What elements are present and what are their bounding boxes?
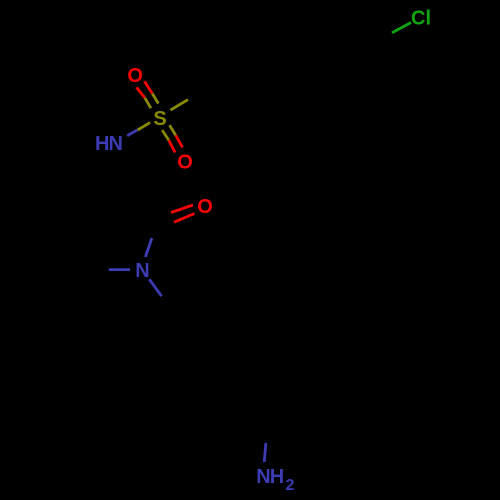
svg-text:O: O	[127, 65, 143, 87]
svg-text:NH: NH	[256, 466, 283, 488]
svg-text:N: N	[135, 260, 149, 282]
bond N1-C5 (half near N1)	[109, 268, 130, 271]
svg-text:S: S	[153, 108, 166, 130]
bond N1-C2 (half near N1)	[145, 238, 152, 257]
bond C2=O carbonyl, line 2 (half near O)	[174, 214, 195, 223]
bond N-S	[127, 123, 150, 136]
bond S=O bottom, line 2	[170, 125, 183, 147]
bond S=O top, line 1	[137, 87, 151, 108]
bond C-Cl (half near Cl)	[392, 23, 411, 33]
svg-text:2: 2	[286, 477, 295, 494]
svg-text:Cl: Cl	[411, 8, 431, 30]
bond S=O bottom, line 1	[162, 130, 175, 152]
bond S=O top, line 2	[144, 81, 158, 103]
bond S-CH2 (half near S)	[171, 100, 189, 111]
svg-text:O: O	[197, 196, 213, 218]
bond C2=O carbonyl, line 1 (half near O)	[171, 205, 193, 213]
bond N1-CH2 benzyl (half near N1)	[149, 279, 161, 296]
svg-text:O: O	[177, 151, 193, 173]
atom label NH2 (aniline)	[256, 466, 294, 494]
bond C-NH2 (half near NH2)	[264, 443, 266, 462]
svg-text:HN: HN	[95, 133, 122, 155]
